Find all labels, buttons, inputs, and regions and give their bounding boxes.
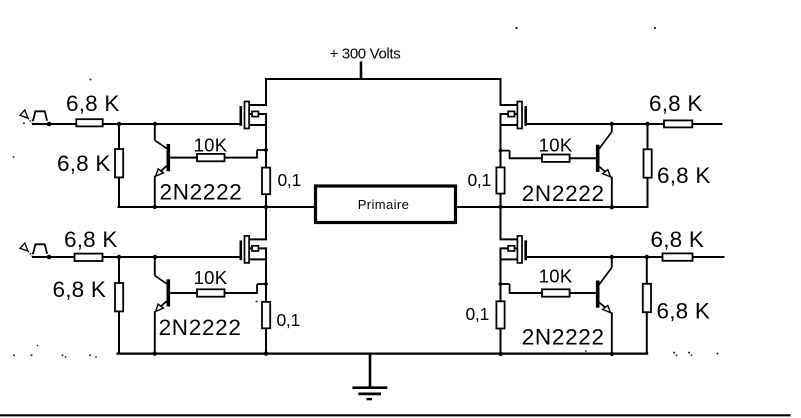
wire Primaire right terminal / right mid rail <box>456 206 649 208</box>
wire drain column BR from mid rail <box>500 207 502 239</box>
junction node Q4 on source column <box>499 282 503 286</box>
svg-text:6,8 K: 6,8 K <box>657 299 711 324</box>
svg-text:10K: 10K <box>539 134 573 155</box>
wire bottom lead shunt TL <box>118 177 120 208</box>
wire base to 10K Q3 <box>170 292 197 294</box>
svg-text:6,8 K: 6,8 K <box>657 163 711 188</box>
wire top lead shunt BR <box>646 257 648 284</box>
svg-text:2N2222: 2N2222 <box>522 181 605 206</box>
wire input BL <box>32 256 75 258</box>
wire base to 10K Q2 <box>570 157 596 159</box>
MOSFET M4 bottom-right source lead <box>500 258 518 260</box>
MOSFET M3 bottom-left body square <box>252 246 258 251</box>
step wire Q3 <box>257 284 266 294</box>
wire 0,1 BL to ground rail <box>265 328 267 354</box>
svg-text:10K: 10K <box>539 266 573 287</box>
wire gate TR <box>526 123 648 125</box>
MOSFET M4 bottom-right channel <box>517 236 522 263</box>
capacitor/resistor 0,1 BR <box>496 301 504 328</box>
input probe TL <box>20 110 32 123</box>
wire gate BR <box>526 256 647 258</box>
transistor Q1 top-left base bar <box>167 144 171 171</box>
junction: divider node BL <box>117 255 121 259</box>
MOSFET M3 bottom-left source lead <box>249 258 267 260</box>
svg-text:0,1: 0,1 <box>278 170 301 190</box>
page border line bottom <box>0 414 791 416</box>
capacitor/resistor 0,1 TR <box>496 167 504 193</box>
junction: emitter Q4 bottom-right to rail <box>610 352 614 356</box>
junction: input node TL <box>47 122 52 127</box>
MOSFET M2 top-right drain lead <box>500 104 518 106</box>
MOSFET M3 bottom-left gate bar <box>240 240 243 260</box>
capacitor/resistor 0,1 TL <box>262 168 270 195</box>
wire bottom lead shunt BR <box>646 312 648 354</box>
power rail +300V top <box>266 79 501 106</box>
junction: collector node TR <box>610 122 614 126</box>
junction: emitter Q2 top-right to rail <box>610 205 614 209</box>
MOSFET M4 bottom-right gate bar <box>524 240 527 260</box>
junction: divider node TR <box>645 122 649 126</box>
wire source column TL <box>265 114 267 168</box>
MOSFET M4 bottom-right body square <box>508 246 514 251</box>
step wire Q2 <box>501 151 510 159</box>
junction: emitter Q1 top-left to rail <box>153 205 157 209</box>
junction: collector node TL <box>153 122 157 126</box>
resistor 6,8 K series TL <box>76 119 102 126</box>
MOSFET M2 top-right body lead <box>500 113 518 115</box>
svg-text:2N2222: 2N2222 <box>522 325 605 350</box>
wire 0,1 TL to mid rail <box>265 194 267 208</box>
transistor Q1 top-left emitter lead with arrow <box>155 166 167 208</box>
wire input BR <box>693 256 725 258</box>
wire gate BL <box>103 256 243 258</box>
junction: divider node TL <box>117 122 121 126</box>
wire source column BR <box>500 248 502 301</box>
wire top lead shunt BL <box>118 257 120 283</box>
transformer primary box Primaire <box>316 186 456 223</box>
wire top lead shunt TR <box>647 124 649 149</box>
wire drain column BL from mid rail <box>265 207 267 239</box>
pulse waveform symbol BL <box>32 244 48 253</box>
wire drain column TR from +300 rail <box>500 79 502 106</box>
MOSFET M1 top-left source lead <box>249 124 267 126</box>
transistor Q1 top-left 2N2222 collector lead <box>155 124 167 149</box>
wire 10K to step Q4 <box>509 292 542 294</box>
wire 0,1 BR to ground rail <box>500 329 502 355</box>
wire top lead shunt TL <box>118 124 120 149</box>
junction: column TL at left mid rail <box>264 205 268 209</box>
wire base to 10K Q1 <box>170 157 197 159</box>
MOSFET M3 bottom-left channel <box>245 236 250 263</box>
resistor 6,8 K vertical shunt TR <box>644 149 652 177</box>
resistor 6,8 K vertical shunt BR <box>643 284 651 312</box>
resistor 10K Q4 <box>542 289 570 296</box>
junction: input node BL <box>47 255 52 260</box>
svg-text:6,8 K: 6,8 K <box>66 91 120 116</box>
svg-text:2N2222: 2N2222 <box>159 315 242 340</box>
transistor Q2 top-right 2N2222 collector lead <box>599 124 612 149</box>
transistor Q4 bottom-right base bar <box>596 281 600 308</box>
wire source column TR <box>500 114 502 167</box>
transistor Q4 bottom-right 2N2222 collector lead <box>599 257 612 285</box>
junction node Q2 on source column <box>499 149 503 153</box>
bottom ground rail <box>117 353 649 355</box>
junction: column TR at right mid rail <box>498 205 502 209</box>
capacitor/resistor 0,1 BL <box>262 302 270 328</box>
svg-text:0,1: 0,1 <box>277 310 300 330</box>
junction: divider node BR <box>645 255 649 259</box>
wire bottom lead shunt BL <box>118 311 120 354</box>
wire source column BL <box>265 248 267 302</box>
transistor Q3 bottom-left emitter lead with arrow <box>155 301 167 355</box>
transistor Q3 bottom-left 2N2222 collector lead <box>155 257 167 284</box>
step wire Q4 <box>501 284 510 294</box>
svg-text:Primaire: Primaire <box>358 197 410 212</box>
resistor 10K Q3 <box>197 289 225 296</box>
svg-text:0,1: 0,1 <box>468 170 491 190</box>
resistor 6,8 K vertical shunt BL <box>115 283 123 311</box>
junction: column BR at ground rail <box>498 352 502 356</box>
wire gate BR outer <box>647 256 663 258</box>
resistor 10K Q2 <box>542 155 570 162</box>
MOSFET M1 top-left channel <box>245 102 250 129</box>
MOSFET M1 top-left body square <box>252 111 258 116</box>
MOSFET M4 bottom-right body lead <box>500 247 518 249</box>
transistor Q2 top-right emitter lead with arrow <box>599 167 612 209</box>
svg-text:0,1: 0,1 <box>466 304 489 324</box>
resistor 6,8 K vertical shunt TL <box>115 149 123 177</box>
svg-text:2N2222: 2N2222 <box>160 179 243 204</box>
junction: collector node BL <box>153 255 157 259</box>
svg-text:6,8 K: 6,8 K <box>64 227 118 252</box>
supply stub +300V <box>360 62 363 80</box>
wire 10K to step Q2 <box>509 157 542 159</box>
wire input TR <box>692 123 722 125</box>
svg-text:6,8 K: 6,8 K <box>651 227 705 252</box>
wire Primaire left terminal / left mid rail <box>118 206 316 208</box>
transistor Q4 bottom-right emitter lead with arrow <box>599 302 612 355</box>
wire input TL <box>32 123 76 125</box>
wire 0,1 TR to mid rail <box>500 194 502 208</box>
MOSFET M3 bottom-left drain lead <box>249 238 267 240</box>
resistor 10K Q1 <box>197 154 225 161</box>
transistor Q2 top-right base bar <box>596 145 600 172</box>
MOSFET M2 top-right channel <box>517 102 522 129</box>
MOSFET M1 top-left gate bar <box>240 106 243 126</box>
junction: column BL at ground rail <box>264 351 268 355</box>
MOSFET M4 bottom-right drain lead <box>500 238 518 240</box>
wire bottom lead shunt TR <box>647 178 649 208</box>
pulse waveform symbol TL <box>32 111 48 120</box>
MOSFET M3 bottom-left body lead <box>249 247 267 249</box>
ground symbol <box>352 354 387 400</box>
svg-text:6,8 K: 6,8 K <box>53 277 107 302</box>
svg-text:10K: 10K <box>194 134 228 155</box>
wire 10K to step Q1 <box>225 157 258 159</box>
input probe BL <box>20 243 32 256</box>
MOSFET M1 top-left body lead <box>249 113 267 115</box>
scan noise specks <box>13 27 719 358</box>
svg-text:+ 300 Volts: + 300 Volts <box>330 46 401 63</box>
wire 10K to step Q3 <box>225 292 258 294</box>
junction: emitter Q3 bottom-left to rail <box>153 351 157 355</box>
step wire Q1 <box>257 150 266 158</box>
junction node Q1 on source column <box>264 148 268 152</box>
resistor 6,8 K series TR <box>664 120 692 127</box>
junction node Q3 on source column <box>264 282 268 286</box>
wire drain column TL from +300 rail <box>265 79 267 105</box>
MOSFET M2 top-right gate bar <box>524 106 527 126</box>
svg-text:6,8 K: 6,8 K <box>57 151 111 176</box>
wire gate TR outer <box>648 123 665 125</box>
resistor 6,8 K series BL <box>75 254 103 261</box>
junction: collector node BR <box>610 255 614 259</box>
svg-text:10K: 10K <box>194 267 228 288</box>
wire gate TL <box>103 123 242 125</box>
svg-text:6,8 K: 6,8 K <box>649 91 703 116</box>
MOSFET M1 top-left drain lead <box>249 104 267 106</box>
MOSFET M2 top-right source lead <box>500 124 518 126</box>
wire base to 10K Q4 <box>570 292 596 294</box>
MOSFET M2 top-right body square <box>508 111 514 116</box>
resistor 6,8 K series BR <box>663 253 693 260</box>
transistor Q3 bottom-left base bar <box>167 279 171 306</box>
